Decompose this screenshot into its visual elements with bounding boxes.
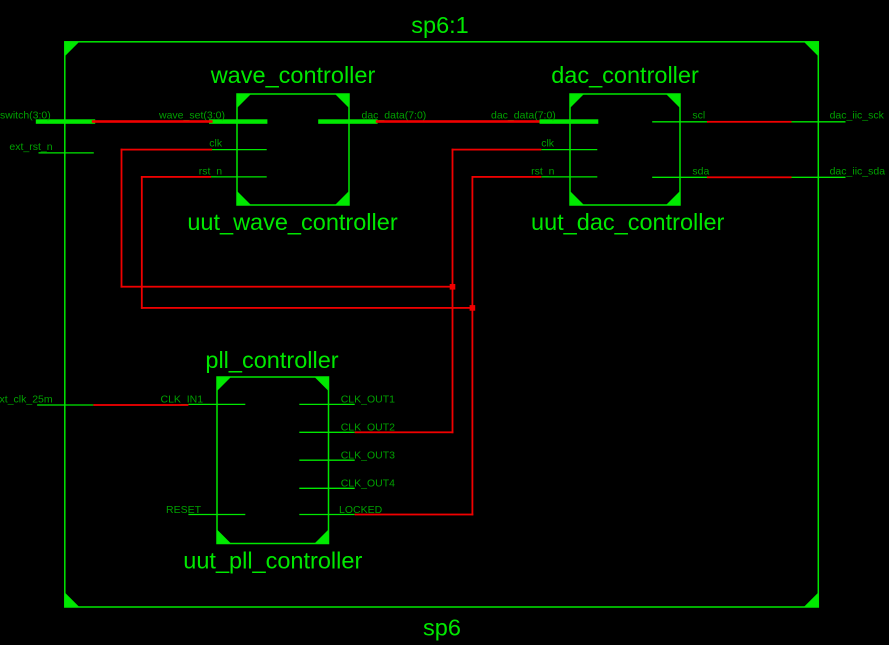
pin wave_set(3:0) bus stub bbox=[209, 119, 267, 124]
port dac_iic_sda stub bbox=[792, 176, 846, 178]
svg-text:rst_n: rst_n bbox=[531, 165, 555, 177]
svg-text:clk: clk bbox=[209, 138, 223, 150]
svg-text:rst_n: rst_n bbox=[199, 165, 223, 177]
block U1 corner marks bbox=[237, 94, 349, 205]
svg-text:sp6:1: sp6:1 bbox=[411, 12, 469, 38]
wire net rst segment left vertical bbox=[141, 176, 143, 309]
svg-text:wave_controller: wave_controller bbox=[210, 62, 376, 88]
wire net rst segment LOCKED horizontal bbox=[355, 514, 474, 516]
pin rst_n stub (dac) bbox=[541, 176, 597, 178]
wire net rst segment right vertical bbox=[472, 176, 474, 515]
port dac_iic_sck stub bbox=[792, 121, 846, 123]
svg-text:dac_iic_sck: dac_iic_sck bbox=[830, 110, 885, 122]
svg-text:uut_pll_controller: uut_pll_controller bbox=[183, 548, 362, 574]
block U3 corner marks bbox=[217, 377, 329, 544]
block U3 pll_controller outline bbox=[217, 377, 329, 544]
block U1 wave_controller outline bbox=[237, 94, 349, 205]
svg-text:CLK_IN1: CLK_IN1 bbox=[161, 393, 204, 405]
junction net rst bbox=[470, 305, 476, 311]
block U2 corner marks bbox=[570, 94, 680, 205]
pin CLK_OUT3 stub bbox=[299, 459, 354, 461]
svg-text:clk: clk bbox=[541, 138, 555, 150]
port switch(3:0) bus stub bbox=[36, 119, 95, 124]
svg-text:uut_wave_controller: uut_wave_controller bbox=[187, 209, 397, 235]
svg-text:uut_dac_controller: uut_dac_controller bbox=[531, 209, 725, 235]
svg-text:dac_data(7:0): dac_data(7:0) bbox=[362, 110, 427, 122]
wire net clk segment wave clk horizontal bbox=[121, 149, 212, 151]
wire sda to dac_iic_sda bbox=[707, 176, 792, 178]
wire net clk segment right vertical bbox=[452, 149, 454, 434]
wire scl to dac_iic_sck bbox=[707, 121, 792, 123]
sheet border sp6 bbox=[65, 42, 819, 607]
wire net clk segment CLK_OUT2 horizontal bbox=[355, 431, 454, 433]
svg-text:sda: sda bbox=[692, 165, 709, 177]
pin rst_n stub (wave) bbox=[211, 176, 267, 178]
svg-text:RESET: RESET bbox=[166, 504, 202, 516]
svg-text:CLK_OUT3: CLK_OUT3 bbox=[341, 450, 395, 462]
wire net clk segment dac clk horizontal bbox=[452, 149, 542, 151]
svg-text:dac_controller: dac_controller bbox=[551, 62, 699, 88]
svg-text:dac_data(7:0): dac_data(7:0) bbox=[491, 110, 556, 122]
svg-text:scl: scl bbox=[692, 110, 705, 122]
svg-text:wave_set(3:0): wave_set(3:0) bbox=[158, 110, 225, 122]
svg-text:pll_controller: pll_controller bbox=[205, 347, 338, 373]
pin clk stub (dac) bbox=[541, 149, 597, 151]
svg-text:CLK_OUT4: CLK_OUT4 bbox=[341, 477, 395, 489]
wire net rst segment wave rst_n horizontal bbox=[141, 176, 211, 178]
pin RESET stub bbox=[188, 514, 245, 516]
svg-text:dac_iic_sda: dac_iic_sda bbox=[830, 165, 886, 177]
wire bus dac_data(7:0) wave to dac bbox=[376, 120, 540, 123]
svg-text:switch(3:0): switch(3:0) bbox=[0, 110, 51, 122]
wire net rst segment bottom horizontal bbox=[141, 307, 473, 309]
sheet border corner marks bbox=[65, 42, 819, 607]
pin scl stub bbox=[652, 121, 707, 123]
pin CLK_OUT4 stub bbox=[299, 487, 354, 489]
block U2 dac_controller outline bbox=[570, 94, 680, 205]
svg-text:sp6: sp6 bbox=[423, 615, 461, 641]
pin dac_data(7:0) output bus stub (wave) bbox=[318, 119, 377, 124]
pin clk stub (wave) bbox=[211, 149, 267, 151]
pin CLK_IN1 stub bbox=[188, 403, 245, 405]
wire net clk segment bottom horizontal bbox=[121, 286, 454, 288]
wire net clk segment left vertical bbox=[121, 149, 123, 288]
junction net clk bbox=[450, 284, 456, 290]
pin LOCKED stub bbox=[299, 514, 354, 516]
wire net ext_clk_25m to CLK_IN1 bbox=[93, 404, 188, 406]
wire bus switch(3:0) to wave_set(3:0) bbox=[92, 120, 213, 123]
pin sda stub bbox=[652, 176, 707, 178]
svg-text:ext_rst_n: ext_rst_n bbox=[9, 141, 52, 153]
port ext_clk_25m stub bbox=[37, 404, 93, 406]
pin CLK_OUT2 stub bbox=[299, 431, 354, 433]
svg-text:CLK_OUT1: CLK_OUT1 bbox=[341, 393, 395, 405]
pin dac_data(7:0) input bus stub (dac) bbox=[540, 119, 599, 124]
wire net rst segment dac rst_n horizontal bbox=[472, 176, 542, 178]
svg-text:ext_clk_25m: ext_clk_25m bbox=[0, 394, 53, 406]
pin CLK_OUT1 stub bbox=[299, 403, 354, 405]
port ext_rst_n stub bbox=[39, 152, 94, 154]
